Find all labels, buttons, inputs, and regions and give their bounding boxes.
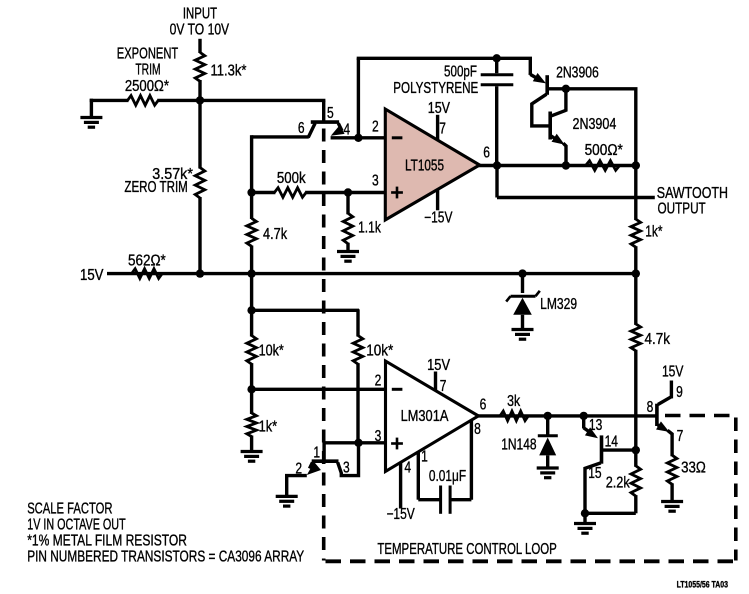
svg-text:LM329: LM329 bbox=[540, 296, 577, 313]
svg-text:15V: 15V bbox=[428, 100, 451, 117]
svg-text:2: 2 bbox=[295, 460, 302, 477]
svg-text:EXPONENT: EXPONENT bbox=[117, 46, 179, 63]
svg-text:500pF: 500pF bbox=[444, 63, 477, 80]
svg-text:0.01μF: 0.01μF bbox=[429, 468, 466, 485]
svg-text:LM301A: LM301A bbox=[401, 408, 449, 425]
svg-text:562Ω*: 562Ω* bbox=[128, 253, 166, 270]
svg-text:2: 2 bbox=[375, 373, 382, 390]
svg-text:2N3906: 2N3906 bbox=[556, 65, 599, 82]
svg-text:4.7k: 4.7k bbox=[645, 331, 671, 348]
svg-text:SCALE FACTOR: SCALE FACTOR bbox=[27, 501, 112, 518]
svg-text:8: 8 bbox=[474, 421, 481, 438]
svg-text:4: 4 bbox=[404, 460, 411, 477]
svg-text:LT1055/56 TA03: LT1055/56 TA03 bbox=[677, 579, 728, 589]
svg-text:*1% METAL FILM RESISTOR: *1% METAL FILM RESISTOR bbox=[27, 533, 187, 550]
svg-text:TRIM: TRIM bbox=[135, 62, 160, 79]
svg-text:15: 15 bbox=[588, 465, 601, 482]
svg-text:1k*: 1k* bbox=[645, 224, 662, 241]
svg-text:3: 3 bbox=[343, 459, 350, 476]
svg-text:6: 6 bbox=[298, 120, 305, 137]
svg-text:1V IN OCTAVE OUT: 1V IN OCTAVE OUT bbox=[27, 517, 126, 534]
svg-text:OUTPUT: OUTPUT bbox=[658, 200, 707, 217]
svg-text:2.2k: 2.2k bbox=[606, 474, 630, 491]
svg-text:7: 7 bbox=[677, 428, 684, 445]
svg-text:8: 8 bbox=[647, 399, 654, 416]
svg-text:POLYSTYRENE: POLYSTYRENE bbox=[393, 80, 478, 97]
svg-text:−15V: −15V bbox=[386, 506, 415, 523]
svg-text:33Ω: 33Ω bbox=[681, 460, 706, 477]
svg-text:1k*: 1k* bbox=[259, 418, 278, 435]
svg-text:0V TO 10V: 0V TO 10V bbox=[170, 22, 230, 39]
svg-text:2500Ω*: 2500Ω* bbox=[125, 78, 169, 95]
svg-text:9: 9 bbox=[676, 384, 683, 401]
svg-text:1: 1 bbox=[313, 444, 320, 461]
svg-text:14: 14 bbox=[605, 434, 619, 451]
svg-text:−15V: −15V bbox=[424, 210, 453, 227]
svg-text:3k: 3k bbox=[507, 393, 520, 410]
svg-text:TEMPERATURE CONTROL LOOP: TEMPERATURE CONTROL LOOP bbox=[377, 541, 556, 558]
svg-text:PIN NUMBERED TRANSISTORS = CA3: PIN NUMBERED TRANSISTORS = CA3096 ARRAY bbox=[27, 548, 304, 565]
svg-text:ZERO TRIM: ZERO TRIM bbox=[124, 179, 187, 196]
svg-text:7: 7 bbox=[439, 121, 446, 138]
svg-text:15V: 15V bbox=[662, 363, 684, 380]
svg-text:4: 4 bbox=[343, 121, 350, 138]
svg-text:10k*: 10k* bbox=[366, 343, 393, 360]
svg-text:4.7k: 4.7k bbox=[263, 226, 287, 243]
svg-text:6: 6 bbox=[480, 397, 487, 414]
svg-text:1.1k: 1.1k bbox=[358, 220, 381, 237]
svg-text:SAWTOOTH: SAWTOOTH bbox=[657, 185, 728, 202]
svg-text:500k: 500k bbox=[277, 170, 306, 187]
svg-text:10k*: 10k* bbox=[259, 343, 284, 360]
svg-text:1N148: 1N148 bbox=[501, 437, 536, 454]
svg-text:500Ω*: 500Ω* bbox=[585, 142, 623, 159]
svg-text:6: 6 bbox=[483, 145, 490, 162]
svg-text:INPUT: INPUT bbox=[183, 5, 218, 22]
svg-text:2N3904: 2N3904 bbox=[573, 116, 617, 133]
svg-text:15V: 15V bbox=[80, 267, 104, 284]
svg-text:3: 3 bbox=[375, 428, 382, 445]
svg-text:1: 1 bbox=[421, 449, 428, 466]
svg-text:15V: 15V bbox=[427, 357, 450, 374]
svg-text:3: 3 bbox=[372, 173, 379, 190]
svg-text:LT1055: LT1055 bbox=[405, 158, 444, 175]
svg-text:2: 2 bbox=[372, 119, 379, 136]
svg-text:13: 13 bbox=[589, 417, 602, 434]
svg-text:11.3k*: 11.3k* bbox=[211, 63, 247, 80]
svg-text:7: 7 bbox=[440, 378, 447, 395]
svg-text:5: 5 bbox=[327, 105, 334, 122]
